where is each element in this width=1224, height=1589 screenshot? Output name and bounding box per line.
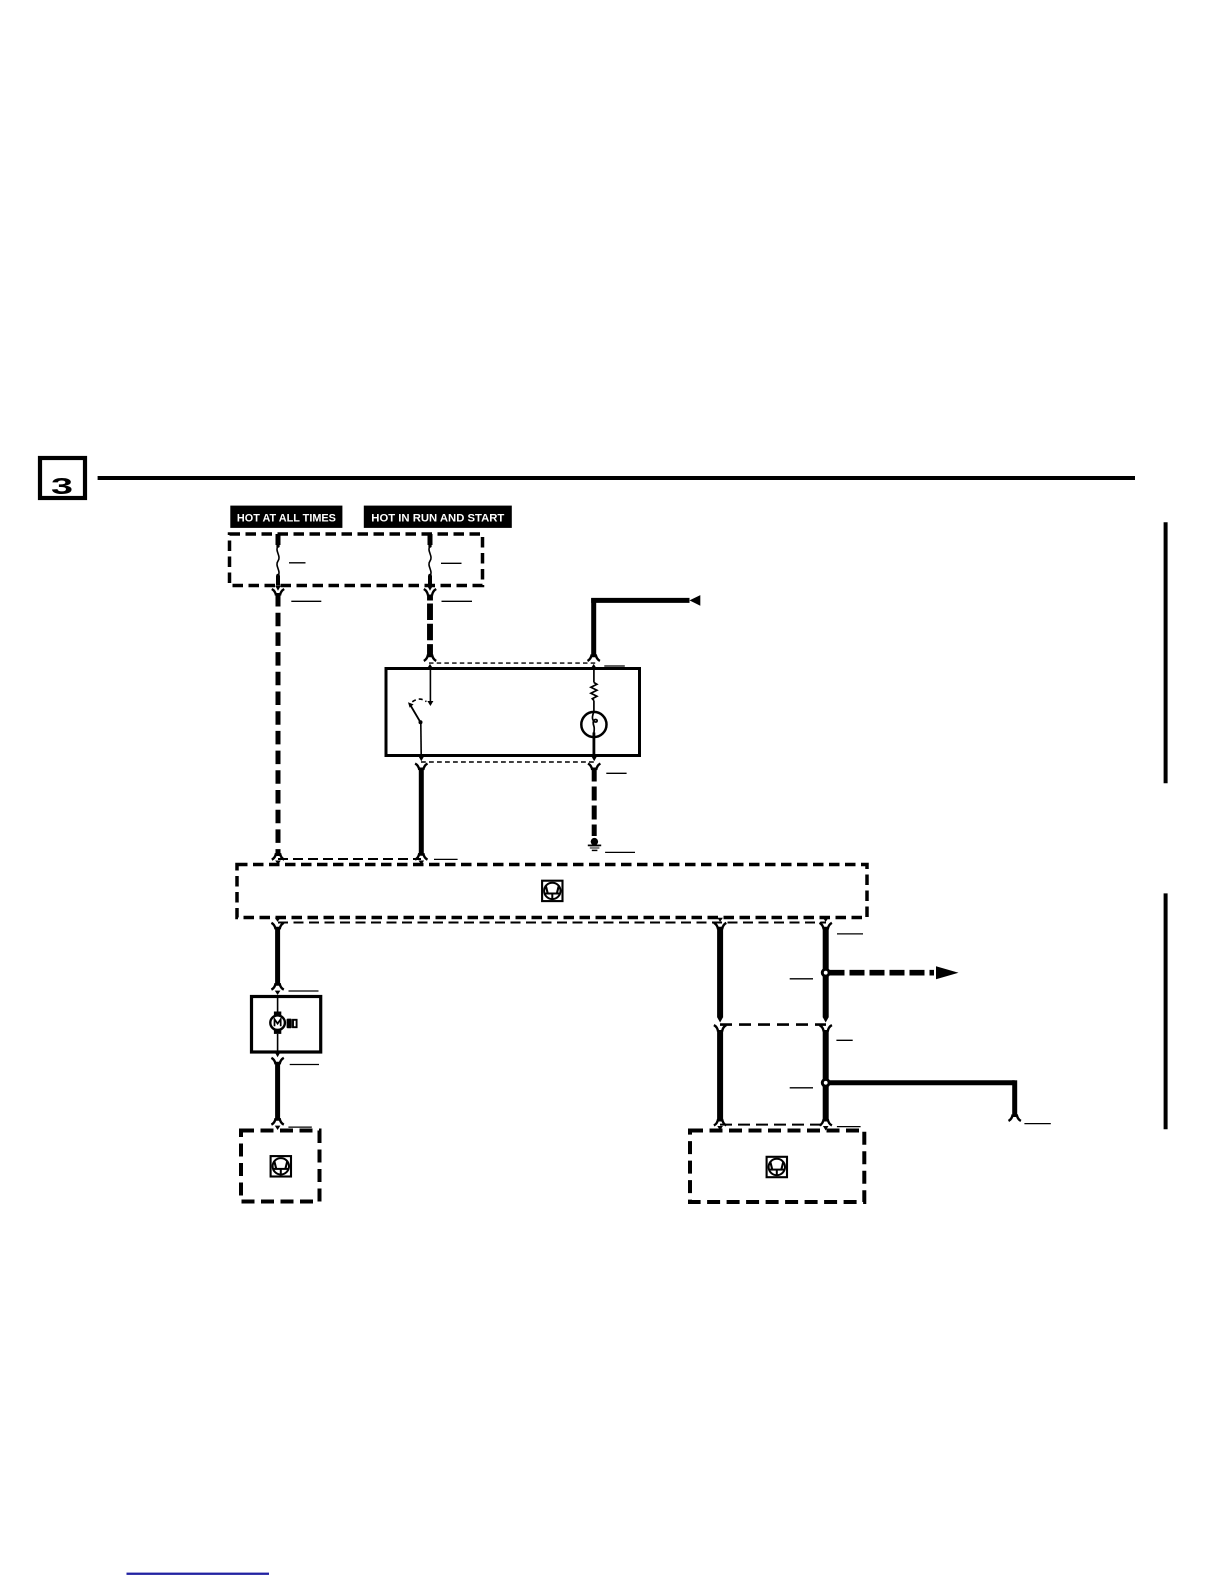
svg-text:HOT IN RUN AND START: HOT IN RUN AND START bbox=[371, 513, 504, 525]
svg-text:HOT AT ALL TIMES: HOT AT ALL TIMES bbox=[237, 513, 336, 525]
svg-text:3: 3 bbox=[51, 473, 73, 499]
